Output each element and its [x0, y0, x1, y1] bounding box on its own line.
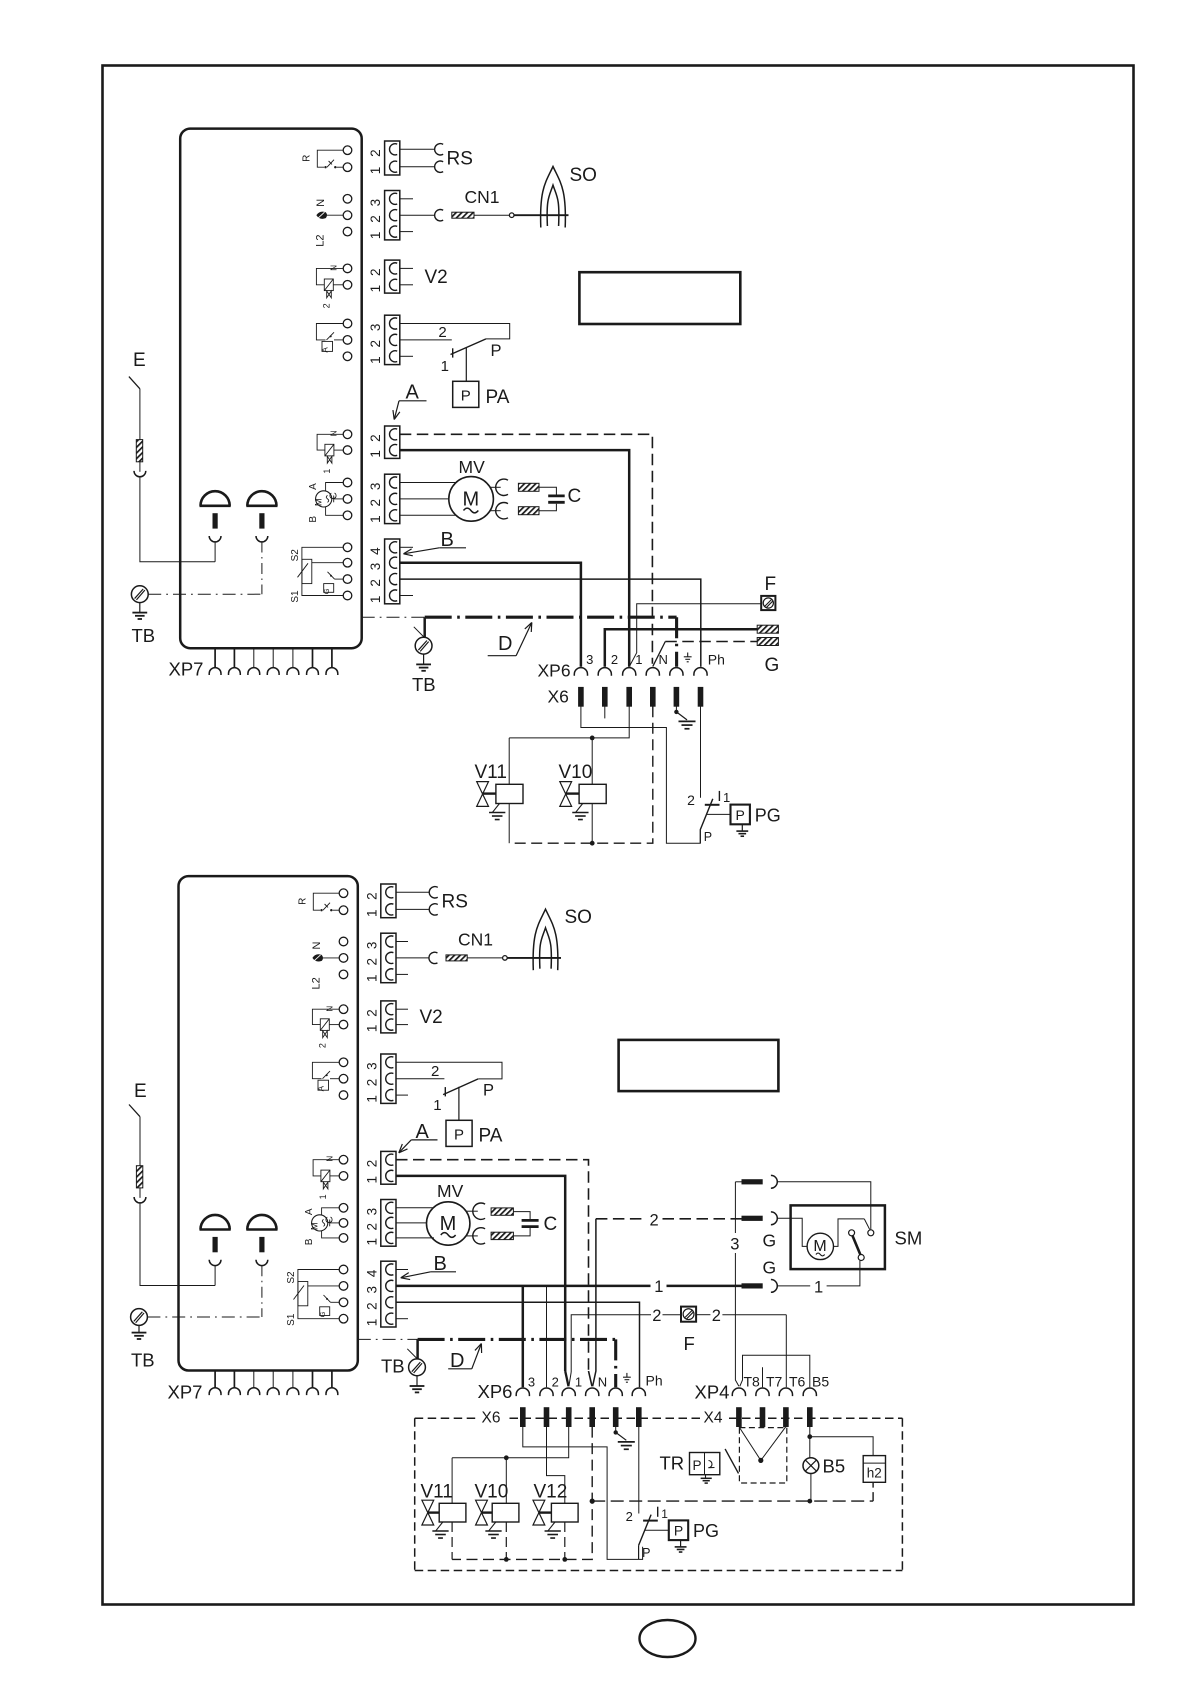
gas valve V11: [477, 782, 489, 794]
svg-text:R: R: [298, 898, 309, 905]
wire B pin1 stub: [400, 595, 413, 597]
lamp B5 return wire: [810, 1474, 812, 1502]
wire A2 pin2 lead-in to N pin: [589, 1371, 593, 1386]
air pressure sensor PA box 2: [446, 1120, 472, 1146]
board pins with switches S1 S2: [339, 1265, 348, 1274]
svg-text:2: 2: [368, 215, 383, 223]
board pins with valve V2 drive: [339, 1005, 348, 1014]
svg-text:P: P: [736, 807, 745, 823]
connector A plug on board edge: [385, 426, 400, 458]
gas valve V12: [533, 1500, 545, 1512]
svg-text:TB: TB: [131, 1350, 155, 1371]
flame sensor terminal F: [761, 596, 775, 610]
svg-text:F: F: [684, 1333, 695, 1354]
svg-text:G: G: [763, 1258, 777, 1278]
wire RS2 pin2: [396, 891, 429, 893]
wire X6-2 to valve V12: [547, 1427, 565, 1504]
board pins with valve 1X drive: [343, 430, 352, 439]
fan motor MV circle 2: [427, 1202, 470, 1245]
svg-text:X6: X6: [482, 1410, 501, 1427]
wire CN1 pin3 stub: [400, 198, 413, 200]
V12 return wire (dashed): [564, 1522, 566, 1559]
spark electrode 2 (dome) 2: [247, 1215, 276, 1230]
svg-text:1: 1: [368, 356, 383, 364]
FR sensor box: [318, 1080, 329, 1090]
svg-text:G: G: [318, 1311, 327, 1317]
svg-text:1: 1: [654, 1278, 663, 1296]
contact 1 tick 2: [444, 1087, 446, 1096]
svg-text:M: M: [462, 489, 479, 511]
wire line 2 (dashed) from SM blade 2: [596, 1218, 646, 1220]
connector XP6 socket arcs: [574, 668, 587, 676]
svg-text:P: P: [642, 1546, 650, 1560]
dashed branch N to lamp B5 and h2: [592, 1500, 873, 1502]
signal lamp B5: [803, 1458, 819, 1474]
dash-dot earth link TB to electrode 2: [147, 1316, 262, 1318]
svg-text:L2: L2: [315, 234, 327, 246]
svg-text:XP6: XP6: [538, 661, 571, 681]
svg-text:2: 2: [687, 792, 695, 808]
svg-text:G: G: [765, 655, 780, 676]
svg-text:SO: SO: [570, 165, 597, 186]
reset contact R symbol: [317, 150, 343, 167]
svg-text:V10: V10: [475, 1482, 509, 1503]
wire B2 pin1 stub: [396, 1318, 408, 1320]
CN1 cable lug (hatched): [452, 212, 474, 218]
svg-text:2: 2: [368, 149, 383, 157]
svg-text:2: 2: [611, 652, 618, 667]
svg-text:3: 3: [364, 1062, 379, 1070]
wire X6-3 to gas pressure switch PG 2: [523, 1427, 643, 1560]
RS2 mating contacts: [429, 887, 438, 898]
svg-text:1: 1: [364, 1025, 379, 1033]
unit enclosure dashed boundary: [415, 1417, 477, 1419]
TR contact junction: [758, 1458, 763, 1463]
wire A2 pin1 (thick) to XP6-1: [396, 1176, 565, 1371]
V12 earth: [548, 1522, 555, 1531]
wire A pin1 (thick) to XP6-1: [400, 450, 629, 667]
CN1-2 mating contact: [429, 952, 438, 963]
capacitor C plates 2: [522, 1219, 539, 1222]
wire X6-earth stub 2: [615, 1427, 617, 1432]
spark gap node 2: [503, 956, 508, 961]
earth branch to chassis terminal TB 2: [416, 1339, 419, 1359]
svg-text:3: 3: [364, 942, 379, 950]
RS mating contacts: [435, 144, 444, 155]
svg-text:P: P: [704, 830, 712, 844]
control board PCB outline (diagram 1): [180, 129, 362, 649]
wire capacitor to lower lug: [539, 504, 556, 511]
earth branch to chassis terminal TB: [423, 617, 426, 637]
svg-text:2: 2: [626, 1509, 633, 1524]
wire SM blade2 socket into SM box: [777, 1218, 807, 1246]
valve 1X coil box: [325, 444, 334, 456]
wire MV pin1 to fan motor: [400, 514, 457, 516]
wire X4-T8 to TR contact: [739, 1427, 761, 1461]
svg-text:A: A: [317, 1085, 326, 1091]
svg-text:PG: PG: [755, 805, 781, 825]
svg-text:2: 2: [438, 324, 446, 341]
svg-text:E: E: [133, 350, 146, 371]
wire B2 pin4 stub: [396, 1269, 408, 1271]
valve V2 coil box: [324, 279, 333, 291]
svg-text:M: M: [440, 1213, 457, 1235]
wire lug to capacitor: [539, 487, 556, 494]
V11 earth 2: [436, 1522, 443, 1531]
svg-text:1: 1: [368, 450, 383, 458]
connector XP7 pins under board: [214, 648, 216, 667]
board pins with valve V2 drive: [343, 264, 352, 273]
connector MV plug on board edge 2: [381, 1200, 396, 1247]
svg-text:3: 3: [364, 1286, 379, 1294]
FR switch contact: [323, 1071, 331, 1079]
tiny valve glyph 1X: [323, 1182, 328, 1189]
wire RS2 pin1: [396, 908, 429, 910]
svg-text:S2: S2: [290, 549, 301, 562]
wire V2-2 pin2 stub: [396, 1008, 408, 1010]
board pins with FR switch: [339, 1058, 348, 1067]
switch S1 S2 block: [298, 1270, 339, 1319]
wire RS pin1: [400, 166, 435, 168]
gas valve V11 2: [422, 1500, 434, 1512]
V10 return wire: [591, 804, 593, 844]
junction earth stub: [674, 710, 678, 714]
svg-text:P: P: [454, 1127, 464, 1144]
svg-text:3: 3: [368, 324, 383, 332]
wire B2 pin3 (thick) line 1 to XP6-3 XP6-2 and SM: [396, 1285, 651, 1288]
svg-text:1: 1: [661, 1507, 668, 1521]
svg-text:1: 1: [368, 515, 383, 523]
svg-text:P: P: [483, 1082, 494, 1100]
svg-text:1: 1: [364, 1238, 379, 1246]
CN1 mating contact: [435, 210, 444, 221]
control board PCB outline (diagram 2): [179, 876, 358, 1370]
svg-text:V2: V2: [420, 1007, 443, 1028]
wire CN1-2 pin3 stub: [396, 941, 408, 943]
wire pin1 stub: [400, 355, 413, 357]
capacitor lug upper (hatched) 2: [491, 1208, 513, 1215]
wire XP6-N to gas valve terminal G (dashed): [653, 642, 666, 667]
svg-text:1: 1: [441, 358, 449, 375]
connector V2 plug on board edge 2: [381, 1001, 396, 1033]
protective earth dash-dot trunk (thick): [425, 616, 677, 619]
burner flame SO 2: [533, 909, 558, 970]
svg-text:TB: TB: [412, 674, 436, 695]
wire line 3 from XP4-T8 to SM blade 3: [735, 1253, 739, 1386]
wire X4-B5 to lamp B5 and timer h2: [809, 1427, 811, 1458]
svg-text:R: R: [302, 155, 313, 162]
wire MV2 pin3: [396, 1207, 434, 1209]
board earth screw TB left 2: [131, 1309, 148, 1326]
gas valve lug G lower (hatched): [757, 638, 778, 646]
svg-text:2: 2: [552, 1374, 559, 1389]
svg-text:PG: PG: [693, 1521, 719, 1541]
capacitor contact arc lower 2: [473, 1228, 485, 1244]
svg-text:C: C: [544, 1214, 558, 1235]
connector for air pressure switch (3-pin): [385, 315, 400, 364]
burner flame SO: [541, 167, 566, 228]
wire A2 pin2 (dashed) to XP6-N: [396, 1160, 589, 1371]
wire V2 pin1 stub: [400, 284, 413, 286]
connector MV plug on board edge: [385, 474, 400, 523]
wire B2 pin2 to XP6-Ph: [396, 1302, 640, 1387]
chassis screw terminal TB: [415, 637, 432, 654]
capacitor C plates: [548, 494, 565, 497]
board pins with fan drive B A C: [343, 478, 352, 487]
svg-text:2: 2: [364, 1160, 379, 1168]
svg-text:2: 2: [364, 958, 379, 966]
wire X4-T6 to TR contact: [761, 1427, 786, 1461]
valve 1X coil box: [321, 1170, 330, 1182]
svg-text:1: 1: [322, 469, 332, 474]
svg-text:T7: T7: [766, 1373, 783, 1389]
G sensor contact: [331, 1301, 340, 1303]
svg-text:1: 1: [368, 285, 383, 293]
connector CN1 plug on board edge: [385, 191, 400, 240]
svg-text:N: N: [315, 199, 327, 207]
wire XP6-1 to flame sensor F: [629, 653, 636, 667]
wire X6-Ph to PG contact 2: [700, 706, 702, 798]
svg-text:CN1: CN1: [465, 187, 500, 207]
electrode E insulator (hatched): [136, 440, 142, 462]
wire electrode 1 down: [214, 542, 216, 562]
gas valve V10 2: [476, 1500, 488, 1512]
svg-text:P: P: [461, 388, 471, 405]
svg-text:B5: B5: [812, 1373, 829, 1389]
connector XP7 pins under board 2: [214, 1371, 216, 1388]
TR switch arm: [725, 1449, 738, 1474]
svg-text:Ph: Ph: [708, 652, 725, 668]
left TB earth symbol 2: [138, 1325, 140, 1332]
V10 return wire 2 (dashed): [505, 1522, 507, 1559]
SM switch contact circles: [868, 1230, 874, 1236]
connector RS plug on board edge: [385, 141, 400, 175]
board pins with switches S1 S2: [343, 543, 352, 552]
svg-text:1: 1: [364, 1319, 379, 1327]
svg-text:P: P: [491, 342, 502, 360]
wire RS pin2: [400, 148, 435, 150]
connector X4 blade terminals: [736, 1407, 742, 1427]
wire motor to capacitor contact upper 2: [466, 1210, 478, 1212]
connector CN1 plug on board edge 2: [381, 933, 396, 983]
svg-text:G: G: [763, 1231, 777, 1251]
dash-dot wire electrode 2 to earth link: [261, 542, 263, 595]
svg-text:N: N: [598, 1374, 607, 1389]
svg-text:M: M: [813, 1238, 826, 1255]
svg-text:XP7: XP7: [168, 1382, 203, 1403]
svg-text:S1: S1: [290, 590, 301, 603]
connector air pressure switch (3-pin) 2: [381, 1054, 396, 1103]
wire motor to capacitor contact upper: [490, 486, 501, 488]
selector motor SM box: [791, 1205, 885, 1269]
svg-text:S2: S2: [286, 1271, 297, 1284]
contact 1 tick: [452, 348, 454, 357]
reset contact R symbol: [313, 893, 339, 910]
junction earth stub 2: [614, 1430, 618, 1434]
svg-text:V2: V2: [425, 267, 448, 288]
svg-text:1: 1: [364, 1095, 379, 1103]
fan motor MV circle: [449, 477, 494, 522]
svg-text:E: E: [134, 1081, 147, 1102]
protective earth drop to XP6 earth pin: [675, 617, 678, 667]
junction on N line: [590, 1499, 595, 1504]
svg-text:N: N: [330, 430, 339, 436]
svg-text:A: A: [308, 483, 319, 490]
svg-text:CN1: CN1: [458, 930, 493, 950]
svg-text:G: G: [322, 588, 331, 594]
svg-text:2: 2: [364, 1223, 379, 1231]
svg-text:2: 2: [368, 434, 383, 442]
svg-text:D: D: [498, 633, 512, 655]
svg-text:XP7: XP7: [169, 659, 204, 680]
svg-text:3: 3: [364, 1208, 379, 1216]
svg-text:X4: X4: [704, 1410, 723, 1427]
protective earth drop to XP6 earth pin 2: [614, 1339, 617, 1387]
electrode E connector cup: [134, 471, 146, 477]
wire pin3 to switch common: [400, 324, 510, 339]
svg-text:3: 3: [528, 1374, 535, 1389]
svg-text:PA: PA: [486, 387, 510, 408]
junction valve V10 feed 2: [504, 1455, 509, 1460]
capacitor contact arc upper: [496, 479, 508, 495]
board motor symbol: [316, 491, 332, 507]
FR sensor box: [322, 341, 333, 351]
svg-text:2: 2: [364, 1302, 379, 1310]
protective earth dash-dot trunk (thick) 2: [418, 1338, 616, 1341]
air pressure switch P arm: [451, 339, 487, 355]
svg-text:P: P: [692, 1458, 701, 1473]
wire X6-2 stub: [604, 706, 606, 718]
wire X6-1 to valves V11 V10 (2): [452, 1427, 569, 1458]
svg-text:RS: RS: [447, 149, 473, 170]
earth stub diagonal and symbol: [676, 712, 687, 720]
svg-text:V11: V11: [475, 762, 507, 783]
protective earth dash-dot line from board 2: [358, 1338, 418, 1340]
capacitor lug lower (hatched) 2: [491, 1232, 513, 1239]
flame sensor wire line 2-F-2: [571, 1315, 651, 1372]
G sensor box: [320, 1307, 330, 1316]
svg-text:N: N: [326, 1006, 335, 1012]
gas valve lug G upper (hatched): [757, 625, 778, 633]
wire pin3 to switch common 2: [396, 1062, 502, 1079]
wire SM blade1 socket to selector arm: [777, 1285, 810, 1287]
wire motor to capacitor contact lower 2: [466, 1235, 478, 1237]
svg-text:1: 1: [318, 1194, 328, 1199]
connector X6 blade terminals: [578, 687, 584, 707]
wire MV pin3 to fan motor: [400, 482, 457, 484]
svg-text:S1: S1: [286, 1313, 297, 1326]
connector V2 plug on board edge: [385, 260, 400, 293]
svg-text:N: N: [311, 941, 323, 949]
connector A plug on board edge 2: [381, 1151, 396, 1184]
V11 earth: [493, 804, 500, 813]
board pins L2 N with flame sense: [339, 937, 348, 946]
board pins for RS with reset contact R: [343, 146, 352, 155]
svg-text:4: 4: [368, 547, 383, 555]
svg-text:MV: MV: [459, 457, 486, 477]
wire CN1 pin2 to ignition electrode: [400, 214, 435, 216]
wire V2 pin2 stub: [400, 267, 413, 269]
link arm to PA sensor 2: [458, 1087, 460, 1121]
thermostat TR box: [690, 1453, 720, 1475]
svg-text:2: 2: [317, 1043, 327, 1048]
svg-text:2: 2: [368, 499, 383, 507]
flame sensing electrode E lead 2: [129, 1105, 140, 1117]
svg-text:N: N: [330, 265, 339, 271]
svg-text:2: 2: [364, 1079, 379, 1087]
flame sensor terminal F 2: [681, 1307, 696, 1322]
svg-text:3: 3: [368, 199, 383, 207]
svg-text:3: 3: [730, 1235, 739, 1253]
svg-text:2: 2: [652, 1307, 661, 1325]
valve V11 feed drop 2: [451, 1458, 453, 1504]
wire F line drop to XP4-T6: [785, 1315, 787, 1388]
switch S1 S2 block: [302, 547, 343, 595]
wire line 2 drop to XP6-N: [593, 1219, 596, 1387]
wire electrode 1 down 2: [214, 1265, 216, 1285]
svg-text:2: 2: [368, 579, 383, 587]
junction V10 return: [590, 841, 595, 846]
empty note box 2: [619, 1040, 779, 1091]
junction V12 return: [562, 1557, 567, 1562]
V10 earth 2: [489, 1522, 496, 1531]
svg-text:TR: TR: [660, 1453, 685, 1474]
svg-text:V12: V12: [534, 1482, 568, 1503]
svg-text:1: 1: [364, 909, 379, 917]
board earth screw TB (left): [131, 586, 148, 603]
svg-text:T8: T8: [744, 1373, 761, 1389]
svg-text:X6: X6: [548, 687, 569, 707]
svg-text:B: B: [304, 1238, 315, 1245]
junction valve V10 feed: [590, 736, 595, 741]
board motor symbol: [312, 1215, 328, 1231]
wire pin1 stub 2: [396, 1094, 408, 1096]
wire A pin2 (dashed) to XP6-N: [400, 434, 653, 664]
room thermostat TR dashed box: [739, 1428, 786, 1483]
svg-text:2: 2: [368, 268, 383, 276]
svg-text:2: 2: [364, 892, 379, 900]
spark electrode 1 (dome) 2: [201, 1215, 230, 1230]
svg-text:3: 3: [368, 483, 383, 491]
svg-text:4: 4: [364, 1269, 379, 1277]
svg-text:RS: RS: [442, 892, 468, 913]
wire capacitor to lower lug 2: [513, 1228, 530, 1236]
wire MV2 pin1: [396, 1237, 434, 1239]
svg-text:L2: L2: [311, 977, 323, 989]
air pressure sensor PA box: [453, 381, 479, 407]
connector B plug on board edge: [385, 539, 400, 604]
svg-text:3: 3: [586, 652, 593, 667]
wire motor to capacitor contact lower: [490, 510, 501, 512]
timer h2 box: [863, 1456, 885, 1483]
drop to XP6-2: [546, 1286, 548, 1387]
svg-text:B5: B5: [823, 1456, 846, 1477]
svg-text:2: 2: [650, 1212, 659, 1230]
svg-text:3: 3: [368, 563, 383, 571]
svg-text:2: 2: [431, 1063, 439, 1080]
TR earth: [705, 1475, 707, 1478]
wire lug to capacitor 2: [513, 1212, 530, 1219]
wire pin2 to contact 2: [400, 339, 452, 341]
FR switch contact: [327, 332, 335, 340]
svg-text:A: A: [321, 347, 330, 353]
lead-in to XP6-1 pin: [569, 1372, 571, 1386]
flame sensing electrode E lead: [129, 377, 140, 389]
wire MV pin2 to fan motor: [400, 498, 449, 500]
svg-text:1: 1: [723, 790, 730, 805]
wire line 1 continues to SM blade 1: [667, 1285, 742, 1288]
drop to XP6-3 (thick): [522, 1286, 525, 1387]
